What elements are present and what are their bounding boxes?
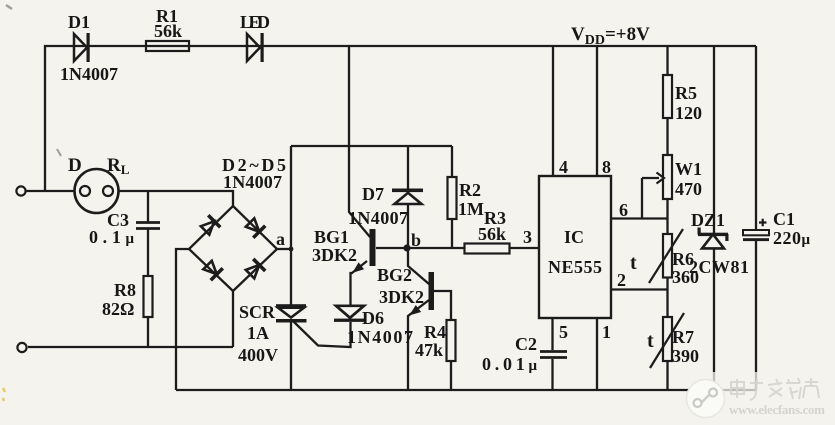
wire R2 leads bbox=[451, 146, 453, 177]
node b junction dot bbox=[403, 244, 410, 251]
wire VDD drop to BG1 collector bbox=[349, 46, 370, 237]
diode upper-right arm bbox=[244, 217, 266, 239]
terminal bottom-left bbox=[17, 343, 26, 352]
wire pin2 bbox=[611, 288, 668, 290]
svg-text:a: a bbox=[276, 229, 285, 249]
svg-text:1N4007: 1N4007 bbox=[347, 327, 413, 347]
svg-text:t: t bbox=[647, 330, 654, 352]
svg-text:4: 4 bbox=[559, 157, 568, 177]
svg-text:D1: D1 bbox=[68, 12, 90, 32]
svg-text:2CW81: 2CW81 bbox=[689, 257, 749, 277]
svg-text:82Ω: 82Ω bbox=[102, 299, 134, 319]
svg-text:1N4007: 1N4007 bbox=[223, 172, 282, 192]
wire C1 leads bbox=[755, 46, 757, 230]
wire pin4 bbox=[552, 46, 554, 176]
svg-text:2: 2 bbox=[617, 270, 626, 290]
wire D7 leads bbox=[407, 146, 409, 189]
wire C3/R8 branch bbox=[147, 191, 149, 222]
terminal top-left bbox=[16, 186, 25, 195]
scan speckle yellow bbox=[3, 388, 5, 401]
resistor R2 bbox=[448, 177, 457, 219]
wire bridge bottom drop bbox=[232, 291, 234, 347]
wire lamp to bridge top bbox=[118, 191, 233, 206]
wire pin1 bbox=[596, 318, 598, 390]
capacitor C3 bbox=[136, 223, 160, 229]
wire BG2 emitter to ground bbox=[408, 300, 429, 390]
wire top rail VDD bbox=[45, 46, 756, 191]
svg-text:IC: IC bbox=[564, 227, 584, 247]
wire pin6 bbox=[611, 217, 668, 219]
thermistor R6 bbox=[663, 234, 672, 278]
svg-text:D6: D6 bbox=[362, 308, 384, 328]
potentiometer W1 bbox=[663, 155, 672, 199]
scan speckle bbox=[57, 149, 61, 156]
scan speckle corner bbox=[6, 5, 12, 9]
diode lower-right arm bbox=[244, 258, 266, 280]
wire BG2 right lead to R4 bbox=[433, 291, 451, 320]
capacitor C2 bbox=[540, 352, 567, 358]
svg-text:BG1: BG1 bbox=[314, 227, 349, 247]
svg-text:C1: C1 bbox=[773, 209, 795, 229]
wire pin8 bbox=[596, 46, 598, 176]
svg-text:5: 5 bbox=[559, 322, 568, 342]
transistor BG1 bbox=[350, 229, 376, 276]
svg-text:LED: LED bbox=[240, 12, 270, 32]
svg-text:b: b bbox=[411, 230, 421, 250]
watermark logo circle bbox=[687, 380, 725, 418]
wire W1 wiper bbox=[641, 178, 643, 219]
svg-text:1M: 1M bbox=[458, 199, 484, 219]
svg-text:R7: R7 bbox=[672, 327, 694, 347]
svg-text:W1: W1 bbox=[675, 159, 702, 179]
resistor R3 bbox=[465, 244, 510, 254]
watermark text 电子发烧友 (approximated strokes) bbox=[731, 378, 819, 400]
svg-text:DZ1: DZ1 bbox=[691, 210, 725, 230]
wire horizontal bus y146 bbox=[291, 145, 452, 147]
wire pin5 C2 bbox=[551, 318, 553, 350]
svg-text:400V: 400V bbox=[238, 345, 278, 365]
wire R5 chain bbox=[666, 46, 668, 75]
svg-text:R2: R2 bbox=[459, 180, 481, 200]
diode lower-left arm bbox=[202, 259, 224, 281]
wire left terminal to lamp bbox=[25, 190, 75, 192]
wire bottom ground rail bbox=[176, 389, 756, 391]
resistor R1 bbox=[146, 41, 189, 51]
svg-text:390: 390 bbox=[672, 346, 699, 366]
wire bottom terminal line bbox=[28, 346, 233, 348]
transistor BG2 bbox=[407, 272, 434, 319]
svg-text:C2: C2 bbox=[515, 334, 537, 354]
diode D1 bbox=[74, 33, 90, 62]
diode upper-left arm bbox=[199, 214, 221, 236]
svg-text:8: 8 bbox=[602, 157, 611, 177]
svg-text:D: D bbox=[68, 155, 82, 176]
svg-text:R4: R4 bbox=[424, 322, 446, 342]
svg-text:470: 470 bbox=[675, 179, 702, 199]
LED bbox=[247, 33, 264, 62]
thermistor R7 bbox=[663, 317, 672, 361]
svg-text:1N4007: 1N4007 bbox=[60, 64, 118, 84]
wire D6 to SCR gate bbox=[293, 321, 351, 347]
diode D6 bbox=[334, 306, 366, 322]
svg-text:NE555: NE555 bbox=[548, 257, 602, 277]
label plus (C1) bbox=[759, 219, 767, 227]
IC NE555 box U1 bbox=[539, 176, 611, 318]
capacitor C1 electrolytic bbox=[743, 230, 769, 241]
node a junction dot bbox=[289, 247, 294, 252]
wire BG1 base to node b to R3 bbox=[376, 247, 465, 249]
wire SCR cathode to ground bbox=[290, 321, 292, 390]
zener diode DZ1 bbox=[698, 228, 729, 249]
svg-text:BG2: BG2 bbox=[377, 265, 412, 285]
resistor R8 bbox=[144, 276, 153, 317]
svg-text:D7: D7 bbox=[362, 184, 384, 204]
wire DZ1 leads bbox=[713, 46, 715, 233]
wire node a to SCR branch bbox=[277, 248, 291, 250]
diode D7 bbox=[392, 189, 423, 205]
svg-text:6: 6 bbox=[619, 200, 628, 220]
svg-text:R5: R5 bbox=[675, 83, 697, 103]
svg-text:R8: R8 bbox=[114, 280, 136, 300]
wire BG2 base from node b bbox=[408, 248, 429, 284]
svg-text:3DK2: 3DK2 bbox=[379, 287, 424, 307]
lamp RL socket symbol bbox=[75, 169, 119, 213]
resistor R4 bbox=[447, 320, 456, 361]
SCR (thyristor) bbox=[276, 304, 307, 322]
svg-text:120: 120 bbox=[675, 103, 702, 123]
svg-text:www.elecfans.com: www.elecfans.com bbox=[729, 402, 825, 417]
svg-text:56k: 56k bbox=[154, 21, 182, 41]
svg-text:1N4007: 1N4007 bbox=[348, 208, 408, 228]
wire BG1 emitter down to D6 bbox=[351, 261, 368, 306]
svg-text:SCR: SCR bbox=[239, 302, 276, 322]
svg-text:VDD=+8V: VDD=+8V bbox=[571, 24, 650, 48]
wire bridge left to ground rail bbox=[176, 249, 189, 390]
svg-text:1: 1 bbox=[602, 322, 611, 342]
wire bridge diamond bbox=[189, 206, 277, 291]
wire R3 to pin3 bbox=[510, 247, 540, 249]
svg-text:3: 3 bbox=[523, 227, 532, 247]
svg-text:3DK2: 3DK2 bbox=[312, 245, 357, 265]
svg-text:47k: 47k bbox=[415, 340, 443, 360]
svg-text:t: t bbox=[630, 252, 637, 274]
watermark glow backdrop bbox=[700, 372, 835, 422]
wire R4 to ground bbox=[450, 361, 452, 390]
resistor R5 bbox=[663, 75, 672, 118]
svg-text:56k: 56k bbox=[478, 224, 506, 244]
svg-text:1A: 1A bbox=[247, 323, 269, 343]
